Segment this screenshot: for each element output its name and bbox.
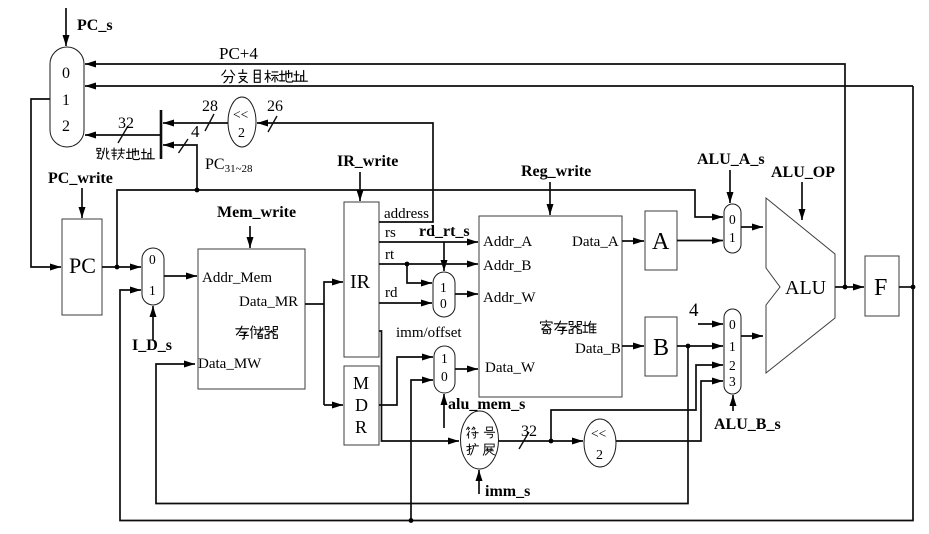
svg-text:address: address — [384, 206, 429, 222]
svg-text:imm/offset: imm/offset — [396, 325, 462, 341]
svg-text:0: 0 — [62, 65, 70, 82]
svg-text:0: 0 — [441, 369, 448, 384]
svg-text:28: 28 — [202, 98, 218, 115]
svg-text:4: 4 — [689, 300, 699, 321]
svg-text:0: 0 — [729, 212, 736, 227]
svg-text:I_D_s: I_D_s — [132, 337, 172, 354]
svg-text:32: 32 — [521, 423, 537, 440]
svg-text:PC+4: PC+4 — [219, 44, 258, 63]
svg-text:1: 1 — [440, 280, 447, 295]
svg-text:1: 1 — [729, 230, 736, 245]
svg-text:D: D — [355, 395, 368, 415]
svg-text:ALU_OP: ALU_OP — [771, 164, 835, 181]
svg-text:PC_write: PC_write — [48, 170, 113, 187]
svg-text:rd_rt_s: rd_rt_s — [419, 223, 470, 240]
svg-text:Data_W: Data_W — [485, 360, 536, 376]
svg-text:26: 26 — [267, 98, 283, 115]
svg-text:IR: IR — [350, 271, 371, 293]
svg-text:2: 2 — [729, 358, 736, 373]
svg-text:0: 0 — [440, 296, 447, 311]
svg-text:ALU: ALU — [785, 277, 827, 299]
svg-text:0: 0 — [149, 252, 156, 267]
svg-text:rs: rs — [385, 225, 396, 241]
svg-text:Addr_A: Addr_A — [483, 234, 532, 250]
svg-text:Reg_write: Reg_write — [521, 163, 591, 180]
svg-text:Data_MR: Data_MR — [239, 294, 298, 310]
svg-text:PC_s: PC_s — [77, 17, 113, 34]
svg-text:2: 2 — [596, 448, 603, 463]
svg-text:32: 32 — [118, 115, 134, 132]
svg-text:Mem_write: Mem_write — [217, 204, 296, 221]
svg-text:4: 4 — [191, 122, 200, 141]
svg-text:Addr_Mem: Addr_Mem — [202, 270, 272, 286]
svg-text:1: 1 — [149, 283, 156, 298]
svg-text:PC: PC — [69, 253, 96, 278]
svg-text:M: M — [353, 373, 369, 393]
svg-text:R: R — [355, 417, 367, 437]
svg-text:IR_write: IR_write — [337, 153, 398, 170]
svg-text:alu_mem_s: alu_mem_s — [448, 396, 525, 413]
svg-text:1: 1 — [729, 339, 736, 354]
svg-text:1: 1 — [62, 92, 70, 109]
svg-text:imm_s: imm_s — [485, 483, 530, 500]
svg-text:Data_B: Data_B — [575, 341, 621, 357]
svg-text:ALU_B_s: ALU_B_s — [714, 416, 781, 433]
svg-text:rd: rd — [385, 285, 398, 301]
svg-text:0: 0 — [729, 317, 736, 332]
svg-text:2: 2 — [62, 118, 70, 135]
svg-text:<<: << — [591, 426, 606, 441]
svg-text:PC31~28: PC31~28 — [205, 156, 253, 175]
svg-text:F: F — [874, 275, 887, 301]
svg-text:Data_MW: Data_MW — [198, 356, 262, 372]
svg-text:rt: rt — [385, 247, 395, 263]
svg-text:B: B — [653, 335, 669, 361]
svg-text:3: 3 — [729, 374, 736, 389]
svg-text:ALU_A_s: ALU_A_s — [697, 151, 765, 168]
svg-text:Data_A: Data_A — [572, 234, 619, 250]
svg-text:Addr_W: Addr_W — [483, 290, 536, 306]
svg-text:2: 2 — [238, 126, 245, 141]
svg-text:1: 1 — [441, 351, 448, 366]
svg-text:A: A — [652, 229, 670, 255]
svg-text:<<: << — [233, 107, 248, 122]
svg-text:Addr_B: Addr_B — [483, 258, 531, 274]
